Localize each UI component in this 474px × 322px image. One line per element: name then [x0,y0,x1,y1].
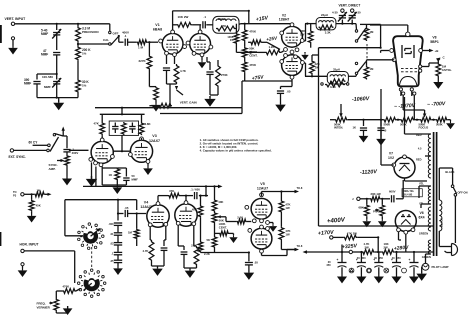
contact ext sync [47,149,50,152]
wire to on-off switch [452,168,454,185]
node branch 390MMF [56,73,58,75]
wire V4a cathode bottom [151,262,153,266]
wire V3b plate top [141,114,143,122]
wire winding to V6 plate2 [421,203,431,205]
svg-text:450: 450 [326,263,331,267]
svg-text:2.2K: 2.2K [191,244,197,248]
ground V4a [152,266,163,276]
contact 60cy [48,144,51,147]
ground R6 [155,101,157,103]
wire attenuator column A [56,24,58,30]
wire mid horizontal y47.7 [319,47,381,49]
resistor R27 500K [436,117,448,122]
resistor R50 47K 1W a [279,200,284,213]
ground C19 [378,267,380,274]
svg-text:TO: TO [13,190,17,194]
wire winding to V6 plate [419,185,431,187]
wire pot to grid [222,216,226,218]
capacitor bank C22 .003 [114,222,122,224]
resistor R19 switch load lower [366,61,368,66]
scan mark left edge [0,25,2,43]
wire cap bank d [117,255,119,260]
T1 lv winding lower [428,240,431,254]
CRT top pin [406,32,410,36]
svg-text:PHASE: PHASE [373,210,382,214]
capacitor C3 100-580 MMF trimmer [53,81,60,83]
svg-text:YEL: YEL [419,182,424,186]
svg-text:600V: 600V [389,190,396,194]
svg-text:RED+YEL: RED+YEL [403,190,415,193]
resistor R9b cathode link [250,40,262,45]
ground attenuator [58,98,60,100]
svg-text:OFF-ON: OFF-ON [458,190,468,194]
wire ext sync line [14,149,47,151]
wire V3a cathode [101,167,103,185]
resistor R47 5K [212,236,217,248]
CRT grid dashes row1 [401,68,404,70]
wire CRT to astig resistor [422,66,429,68]
wire sawtooth [24,193,34,195]
capacitor C4 390 MMF [33,81,40,83]
resistor R29 47K plate V3a [100,122,105,135]
terminal arrow TO-8 a [295,190,300,194]
wire bus y113.5 [160,113,242,115]
capacitor C13 multivib a [112,126,118,128]
ground C18 [360,267,362,274]
svg-text:68K: 68K [359,206,364,210]
tube V5b 12AU7 [251,228,272,249]
svg-text:V6: V6 [420,211,424,215]
junction circles damping [321,83,323,85]
resistor R25 500K [400,117,415,122]
svg-text:V7: V7 [389,152,393,156]
resistor R49 2.2K grid [237,219,247,224]
trimmer cap A 4-30 [341,20,343,24]
capacitor C8 screen bypass [206,71,213,73]
wire C2 to C3 [56,55,58,80]
wire V5 left chain top [214,186,216,199]
divider chain wire [330,119,335,121]
CRT pin left upper [390,49,394,53]
resistor R3 30K 1% [76,79,81,93]
ground cap bank [113,266,123,275]
CRT pin left lower [392,58,396,62]
pot R35 phase [381,199,383,205]
CRT base pin b1 [399,88,402,91]
svg-text:TO-8: TO-8 [297,186,303,190]
terminal blanking [357,197,360,200]
svg-text:4.7K: 4.7K [180,69,186,73]
wire vert-cent chain bottom down [241,81,243,108]
capacitor C1 5-40 MMF trimmer [53,32,60,34]
svg-text:ASTIG.: ASTIG. [442,68,452,72]
can symbol d [402,268,407,273]
pot R40 FREQ VERNIER [54,299,59,312]
wire screen rail [210,94,218,96]
wire V4b cathode down [177,225,179,246]
svg-text:400V: 400V [72,151,79,155]
svg-text:47K: 47K [221,24,226,28]
tube V1b 6BA8 pentode [190,33,211,54]
svg-text:OFF: OFF [113,32,119,36]
svg-text:12AX7: 12AX7 [149,139,160,143]
svg-text:6.8K: 6.8K [145,122,152,126]
peaking coil L3 33uH [327,72,348,85]
wire V3 cross couple [113,150,130,152]
wire R41 down [136,239,138,246]
filter cap C21 [413,252,415,263]
svg-text:47K: 47K [169,189,174,193]
resistor R39 470K [63,289,77,294]
svg-text:1V2: 1V2 [388,156,394,160]
wire C12 to grid [69,149,89,151]
T1 right winding [439,200,442,231]
wire V4 grid row [118,213,124,215]
svg-text:1M: 1M [370,67,375,71]
svg-text:VERT. GAIN: VERT. GAIN [180,101,197,105]
wire R17 bottom [310,44,312,48]
svg-text:AMP.: AMP. [49,167,56,171]
svg-text:V4: V4 [144,201,148,205]
svg-text:V5: V5 [260,182,264,186]
capacitor C7 V1a cathode [163,67,170,69]
trimmer cap B 4-30 [351,20,353,24]
wire S3 up arrow [62,129,64,136]
svg-text:(56.4 W): (56.4 W) [403,194,412,197]
wafer SW1 radial ticks [99,237,101,239]
wire V5b to arrow [286,250,288,256]
capacitor bank C26 .25 [114,259,122,261]
wire bus sync [149,105,154,107]
svg-text:4.7K: 4.7K [143,249,149,253]
wire C4 down [36,84,38,98]
svg-text:450: 450 [361,256,366,260]
wire R7 to C6 [192,24,201,26]
wire HV winding top [405,133,431,135]
wire attenuator column B top [77,24,79,27]
wire R14-R15 [244,58,246,61]
pot R46 50K HOR CENT [212,212,217,224]
resistor R24 500K [383,117,397,122]
wire -1060 to V7 [380,120,382,165]
ground between V2 right [304,52,306,53]
node trimmer B [351,23,353,25]
svg-text:4-30: 4-30 [355,11,361,15]
wire top bus y11 [172,10,248,12]
svg-text:GREEN: GREEN [422,255,431,259]
svg-text:2.2K: 2.2K [237,215,243,219]
svg-text:45K: 45K [192,208,197,212]
wire R16 to pins [281,51,284,52]
svg-text:.05: .05 [287,90,291,94]
svg-text:HOR. INPUT: HOR. INPUT [20,242,39,246]
capacitor C12 .1 sync coupling [63,149,70,151]
capacitor C9 .05 V2 bypass [291,79,293,86]
wire R13-R14 [244,42,246,47]
wire grid node down [148,42,150,55]
wire trimmer A to terminal [341,11,343,14]
node rail b [377,251,379,253]
wire long vertical sweep feed [318,48,320,226]
svg-text:.25: .25 [110,259,114,263]
ground pilot [416,271,427,281]
wire C28 to junction [199,195,206,197]
capacitor C14 multivib b [129,126,135,128]
wire chain a [348,119,383,121]
switch S1 CAL contact [109,43,111,45]
switch S4 contact b [454,194,457,197]
wire cap bank feed [117,200,119,221]
svg-text:33µH: 33µH [333,67,340,71]
resistor R34 68K [366,199,368,205]
CRT deflection plates [401,45,403,58]
wire winding tap [425,155,431,157]
wire cap bank a [117,225,119,232]
wire R47 bottom [214,248,216,253]
svg-text:1W: 1W [300,33,305,37]
wire R2-R3 [77,61,79,79]
svg-text:-1120V: -1120V [360,169,378,176]
switch S2a contacts [355,30,357,32]
svg-text:.1 / 600: .1 / 600 [191,187,201,191]
wire V1b cathode down [201,57,203,60]
wire C6 to L1 [206,24,213,26]
pot R14 50K VERT CENT [242,47,247,58]
coupling box V3 [109,121,138,135]
AC plug [452,244,458,256]
resistor R10 4.7K V1a [174,64,179,84]
svg-text:-1060V: -1060V [352,96,370,103]
ground V4b [185,268,196,278]
node V1 grid [147,41,158,43]
wire vert input to attenuator [15,23,110,25]
svg-text:.03: .03 [110,242,114,246]
wire C12 to pot [66,152,68,155]
wire bus down to +15 node [248,11,250,24]
wire node down [377,237,379,252]
terminal arrow TO-8 b [295,248,300,252]
svg-text:MMF: MMF [132,177,139,181]
capacitor bank C25 .1 [114,251,122,253]
svg-text:10K 2W: 10K 2W [178,15,189,19]
svg-text:3.3K: 3.3K [325,30,331,34]
resistor R33 20K 1W blanking [370,196,381,201]
switch S1 OFF contact [109,31,111,33]
peaking coil L2 23uH + damping R [316,18,336,30]
resistor R44 2.2K V4b [193,226,195,246]
tube V3a 12AX7 [91,141,113,163]
svg-text:1%: 1% [82,84,87,88]
svg-text:V8: V8 [432,36,436,40]
svg-text:500K: 500K [400,123,407,127]
CRT gun arc [400,77,417,86]
svg-text:100-580: 100-580 [42,75,53,79]
svg-text:4. Capacity values in µfd unl: 4. Capacity values in µfd unless otherwi… [200,148,272,152]
wire box left [64,200,66,236]
ground 20K tap [229,232,234,234]
resistor R12 270K screen [216,64,221,88]
wire attenuator bottom rail [37,97,78,99]
transformer T1 core [433,132,435,256]
resistor R6 sync takeoff [154,87,159,101]
wire R9 bottom to cathode row [235,44,237,52]
filter cap C17 [341,252,343,263]
capacitor C27 .05 grid [124,210,126,217]
wire switch to plug [454,196,456,243]
svg-text:470K: 470K [249,30,257,34]
pot wiper arrow [247,51,251,54]
wire L1 to V2 area [239,23,241,26]
capacitor C30 V4b bypass [183,246,185,250]
capacitor C15 50MMF [117,167,126,169]
svg-text:227K: 227K [139,59,147,63]
wire +B stub arrow [306,251,349,253]
gang dashes S2 [366,44,368,60]
pins between V2 sections [284,48,288,52]
resistor R42 47K plate [168,193,180,198]
wire R52 to arrow [45,193,49,195]
wire V2a plate to L2 [304,40,306,42]
svg-text:1 M: 1 M [138,46,144,50]
svg-text:2W: 2W [365,246,370,250]
wire R3 bottom [77,93,79,98]
resistor R45 40K [212,199,217,212]
wire green lead down [426,253,431,255]
terminal ext sync [10,149,13,152]
capacitor bank C24 .03 [114,242,122,244]
wire pilot to ground [421,266,423,268]
svg-text:470K: 470K [249,63,257,67]
wafer SW1 arm [91,229,99,236]
svg-text:VERNIER: VERNIER [37,306,51,310]
wafer SW2 contacts [103,282,106,285]
svg-text:FOCUS: FOCUS [419,126,429,130]
wire lower black lead [438,231,440,247]
wire chain d [432,119,436,121]
resistor R4 1M grid stopper [137,40,148,45]
wire V5a top [261,192,263,197]
svg-text:~ -700V: ~ -700V [427,101,446,108]
node attenuator top [56,23,58,25]
wire C3 down [56,84,58,98]
switch S4 on-off contact a [451,185,454,188]
wire cap bank b [117,235,119,242]
wire bus y186 [83,185,215,187]
wire V1b screen down [206,57,208,62]
terminal arrow bus [205,185,207,187]
svg-text:4.5: 4.5 [418,147,422,151]
wire V3a plate top [101,114,103,122]
resistor R48 45K [198,205,203,218]
wire R5 to cathode rail [148,70,150,87]
ground C31 [248,265,250,270]
CRT pin right mid2 [419,69,422,72]
tube V2a 12BH7 [282,26,303,47]
wire V1a cathode down [166,55,168,64]
resistor R31 6.8K plate V3b [139,122,144,135]
capacitor C6 .1 [202,21,204,28]
ground V5 mid [269,222,273,224]
scan mark left edge 2 [0,232,1,246]
svg-text:VERT. DIRECT: VERT. DIRECT [339,3,361,7]
wire CRT top pin up-left [407,25,409,32]
wire bus y107.7 [95,107,242,109]
svg-text:.05: .05 [125,206,129,210]
wire chain c [415,119,420,121]
wire V1a plate up [172,11,174,30]
svg-text:CAL: CAL [103,38,109,42]
svg-text:45K: 45K [36,204,41,208]
wire -1060 feed [380,89,382,120]
wire +170 rail [333,236,343,238]
resistor R5 227K [147,55,152,70]
can symbol b [367,268,372,273]
pilot lamp [422,263,429,270]
wire base pin b3 down [411,91,413,96]
wire R36 to node [357,236,378,238]
wire CRT vert plate feed [380,24,382,47]
wire R20 top [311,55,313,60]
wire V3 plate a up [101,135,103,138]
capacitor C31 output coupling [248,253,250,262]
svg-text:GREEN: GREEN [419,232,428,236]
wire V4 plate row [157,196,159,202]
capacitor C11 divider bypass 2 [380,120,382,126]
ground astig [437,77,439,80]
rotary wafer SW1 sweep range [85,231,96,242]
capacitor C16 blanking coupling [391,195,393,202]
T1 rectifier winding [428,186,431,204]
svg-text:500K: 500K [384,123,391,127]
ground V3b cathode [147,163,149,166]
wire C27 to grid [128,213,146,215]
wire C1 to C2 [56,35,58,50]
wire astig top arrow +C [437,61,439,64]
wire +400V rail [319,225,434,227]
wire cap bank c [117,245,119,252]
switch S1 arm [111,37,119,46]
filter cap C19 [378,252,380,263]
wire lower left pin [393,59,395,61]
ground divider end [448,119,451,121]
wire R49 to pins [247,221,252,223]
svg-text:VERT. INPUT: VERT. INPUT [5,17,27,21]
tube V3b 12AX7 [130,140,152,162]
wire bus right corner [241,108,243,114]
wire switch to C5 [118,36,120,42]
wire plate row [173,24,177,26]
svg-text:MMF: MMF [41,53,48,57]
terminal sawtooth out [21,193,24,196]
wafer SW1 contacts [102,235,105,238]
wire chain b [397,119,401,121]
ground sync pot [66,166,68,176]
wire V6 pins down [405,234,407,252]
wire right pin to +B arrow [423,50,432,52]
wire V4b bottom [184,267,197,269]
CRT V8 envelope [393,36,423,86]
wire R39 left [56,290,62,292]
resistor R17 22K 1W upper [310,24,312,30]
svg-text:MMF: MMF [44,85,51,89]
svg-text:MMF: MMF [41,32,48,36]
svg-text:EXT. SYNC.: EXT. SYNC. [9,155,26,159]
wire R18 top to CRT feed [372,23,381,25]
terminal vert direct 1 [341,9,344,12]
wire right winding top to switch [438,168,440,200]
tube V5a 12AU7 [251,198,272,219]
svg-text:23µH: 23µH [321,13,328,17]
